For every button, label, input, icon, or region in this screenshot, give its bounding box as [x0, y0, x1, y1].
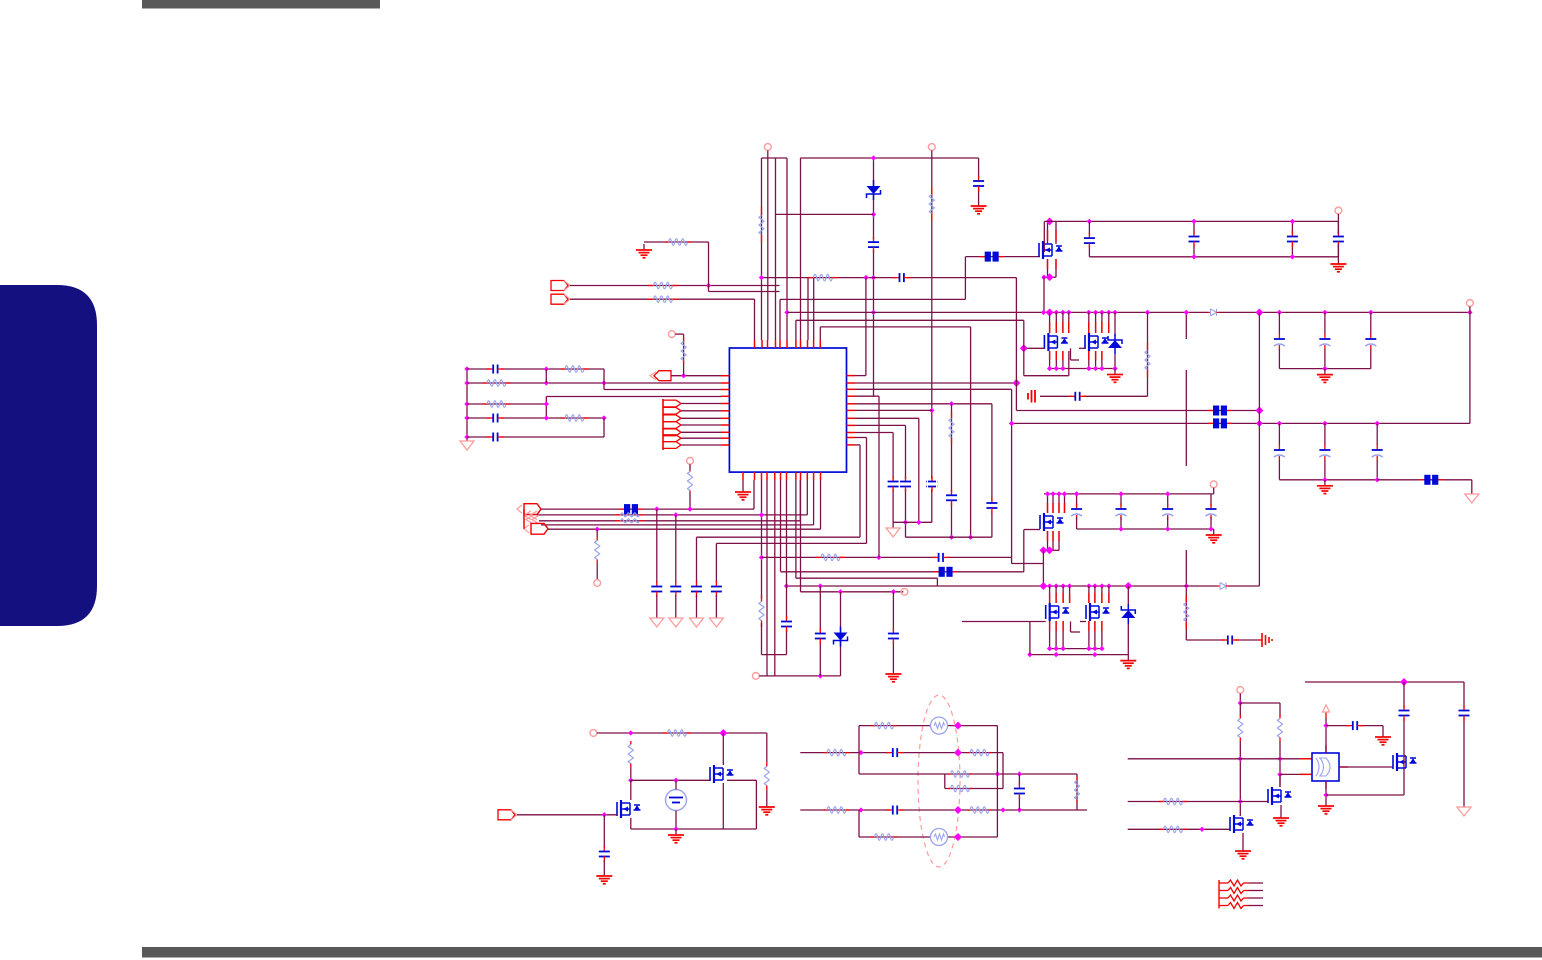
- junction net418: [544, 415, 549, 420]
- wire pin432 route: [855, 432, 893, 434]
- wire Z2 bot stub: [1127, 624, 1129, 655]
- ferrite bead FB3: [1208, 418, 1232, 428]
- wire QF src: [630, 818, 632, 829]
- capacitor C20: [945, 490, 958, 506]
- junction rail423 v1011: [1009, 421, 1014, 426]
- wire J9 net: [517, 814, 617, 816]
- wire rail 655: [1030, 654, 1128, 656]
- junction cbank2 r: [1375, 477, 1380, 482]
- wire pin375 route: [855, 375, 866, 377]
- pin stub red QCD top 1088.9: [1088, 593, 1090, 603]
- pin stub red QCD top 1094.9: [1094, 593, 1096, 603]
- ground G8: [636, 244, 652, 258]
- capacitor C3B-3: [1161, 504, 1174, 520]
- wire V683 res: [683, 334, 685, 376]
- wire V978 drop: [978, 158, 980, 200]
- resistor R17: [595, 537, 600, 563]
- resistor R7: [648, 296, 678, 303]
- pin left 418.3: [721, 417, 729, 419]
- terminal P9: [753, 673, 760, 680]
- pin left 396.3: [721, 395, 729, 397]
- wire br toprail: [1305, 681, 1464, 683]
- pin top 754.5: [754, 340, 756, 348]
- GPU controller IC U1 body: [729, 348, 846, 472]
- wire H396 leg: [1040, 395, 1148, 397]
- junction rail423 c2: [1322, 421, 1327, 426]
- pin top 820.3: [819, 340, 821, 348]
- junction J9 a: [602, 812, 607, 817]
- wire bl top: [597, 732, 767, 734]
- wire Z2 top stub: [1127, 586, 1129, 606]
- capacitor C5: [1083, 233, 1096, 249]
- junction srcrail 1062.9: [1060, 366, 1065, 371]
- wire V761 down2: [761, 623, 763, 655]
- pin stub red Q0 top 1056: [1055, 230, 1057, 241]
- pin top 767.5: [767, 340, 769, 348]
- pin left 445: [721, 444, 729, 446]
- pin stub red QAB top 1088.8: [1088, 322, 1090, 333]
- polarized capacitor CB2-3: [1371, 445, 1384, 461]
- junction cbank2 g: [1322, 477, 1327, 482]
- junction c3bank 1: [1074, 491, 1079, 496]
- capacitor C21: [899, 476, 912, 492]
- wire c3bank4 stub: [1210, 494, 1212, 506]
- capacitor C27: [1013, 783, 1026, 799]
- wire Q0 drain stub2: [1055, 221, 1057, 244]
- junction rail655 b: [1053, 652, 1058, 657]
- terminal P5: [1210, 481, 1217, 488]
- wire V1068 link: [1068, 351, 1070, 376]
- wire QB gate jog h: [1071, 359, 1080, 361]
- junction V1326-725: [1323, 723, 1328, 728]
- ground G5: [1317, 480, 1333, 494]
- wire c3bank4 bot: [1210, 517, 1212, 529]
- connector J4 arrow 4: [663, 422, 681, 429]
- polarized capacitor C10 red: [1028, 390, 1035, 403]
- wire drop a: [656, 509, 658, 583]
- pin stub red U2 in1: [1300, 758, 1311, 760]
- resistor R19: [816, 554, 846, 561]
- wire rail 586: [787, 585, 1260, 587]
- wire net437: [467, 436, 604, 438]
- wire H578: [796, 577, 938, 579]
- pin stub red QCD bot 1056.1: [1055, 621, 1057, 631]
- wire bead feed: [966, 256, 1040, 258]
- power arrow PA1: [1323, 705, 1330, 718]
- wire V756 down: [755, 780, 757, 829]
- junction C7 bot: [1290, 254, 1295, 259]
- wire V879: [878, 396, 880, 557]
- wire pin396 route: [855, 395, 879, 397]
- ground G1: [971, 200, 987, 214]
- chassis ground CG1: [1258, 633, 1272, 647]
- junction rail423 c1: [1277, 421, 1282, 426]
- pin right 383: [847, 382, 856, 384]
- junction Q3 top 1047.5: [1045, 491, 1050, 496]
- wire br h703: [1240, 702, 1280, 704]
- wire QF2 src: [1242, 833, 1244, 845]
- wire QC gate: [962, 621, 1046, 623]
- wire C8 gnd stub: [1337, 244, 1339, 258]
- pin stub red QAB bot 1049.6: [1049, 351, 1051, 360]
- pin stub red U2 out: [1339, 766, 1348, 768]
- resistor R24: [871, 722, 897, 729]
- junction c3bank 2: [1118, 491, 1123, 496]
- wire V774 down: [774, 480, 776, 676]
- wire net396: [546, 396, 721, 398]
- wire V1077: [1076, 774, 1078, 810]
- pin bottom 754.5: [754, 472, 756, 480]
- wire cbank1 bot 2: [1324, 349, 1326, 369]
- junction V761-row515: [759, 512, 764, 517]
- pin right 389.3: [847, 388, 856, 390]
- wire QB top stub 1: [1088, 312, 1090, 333]
- junction rail586 a4: [1060, 583, 1065, 588]
- resistor R15: [616, 513, 644, 517]
- junction C6 top: [1191, 219, 1196, 224]
- wire Q3 top stub 1064.5: [1064, 494, 1066, 513]
- wire P12 link: [675, 333, 683, 335]
- polarized capacitor CB1-2: [1318, 334, 1331, 350]
- capacitor C11: [1221, 635, 1239, 646]
- wire Q0 src stub1: [1047, 259, 1049, 277]
- terminal P2: [928, 144, 935, 151]
- wire G8 stub: [644, 241, 648, 243]
- pin stub red QAB top 1108.8: [1108, 322, 1110, 333]
- wire V944: [944, 774, 946, 789]
- junction rail312 right: [1467, 310, 1472, 315]
- wire pin444 route: [855, 444, 860, 446]
- wire net383: [467, 382, 721, 384]
- wire QF drain: [630, 780, 632, 800]
- capacitor C16: [814, 628, 827, 644]
- wire Q3 gate stub: [1024, 529, 1040, 531]
- junction V1011-423: [1009, 421, 1014, 426]
- junction V467 e: [464, 434, 469, 439]
- pin left 389.5: [721, 389, 729, 391]
- junction rail586 z: [1124, 582, 1132, 590]
- pin bottom 774.8: [774, 472, 776, 480]
- junction srcrail 1101.9: [1099, 366, 1104, 371]
- wire QB top stub 4: [1108, 312, 1110, 333]
- wire c3bank stub 1: [1076, 494, 1078, 506]
- wire V604 drop: [603, 815, 605, 848]
- pin stub red QAB top 1049.6: [1049, 322, 1051, 333]
- wire cap1089 chain: [1088, 221, 1090, 256]
- wire cbank1 rail: [1279, 368, 1370, 370]
- pin top 787: [786, 340, 788, 348]
- junction Q0 drain rail: [1046, 217, 1054, 225]
- wire GF2 stub: [892, 522, 894, 526]
- wire net404: [467, 403, 546, 405]
- resistor R3 on V931: [929, 187, 934, 221]
- wire V1023 q3: [1023, 530, 1025, 572]
- wire V1326 a: [1325, 718, 1327, 753]
- wire top manifold A: [762, 157, 788, 159]
- wire V546 a: [545, 369, 547, 383]
- junction V1240-801: [1238, 799, 1243, 804]
- mosfet QA: [1044, 333, 1068, 351]
- pin stub red QCD top 1101.9: [1101, 593, 1103, 603]
- wire pin425 route: [855, 424, 906, 426]
- junction rail312 QA3: [1054, 310, 1059, 315]
- capacitor C25: [886, 747, 904, 758]
- pin stub red QCD top 1063.1: [1062, 593, 1064, 603]
- highlight ellipse: [918, 695, 960, 867]
- junction rail277-V873: [871, 275, 876, 280]
- resistor R13: [681, 338, 686, 364]
- wire Q3 top stub 1053: [1052, 494, 1054, 513]
- wire QD gate: [1080, 621, 1086, 623]
- pin right 425.4: [847, 424, 856, 426]
- wire V860: [859, 445, 861, 537]
- wire V766 res: [766, 733, 768, 762]
- pin right 418.3: [847, 417, 856, 419]
- junction rail648 1094.9: [1092, 646, 1097, 651]
- wire QD bot stub 1088.9: [1088, 621, 1090, 649]
- ground flag GF2: [886, 526, 900, 537]
- wire QD bot stub 1094.9: [1094, 621, 1096, 649]
- wire V1186 seg3: [1185, 550, 1187, 640]
- capacitor C6: [1188, 231, 1201, 247]
- junction rail586 a2: [1047, 583, 1052, 588]
- junction Q0 source2: [1046, 273, 1054, 281]
- junction V1280-774: [1277, 772, 1282, 777]
- wire Q3 src stub 1059: [1058, 531, 1060, 550]
- wire V905: [905, 425, 907, 537]
- pin stub red Q3 bot 1047.5: [1047, 531, 1049, 541]
- wire H640: [1186, 639, 1258, 641]
- junction srcrail 1049.6: [1047, 366, 1052, 371]
- pin stub red QCD bot 1088.9: [1088, 621, 1090, 631]
- pin stub red Q3 top 1047.5: [1047, 503, 1049, 513]
- wire net369: [467, 368, 604, 370]
- wire QB bot stub 2: [1095, 351, 1097, 369]
- junction row810 b: [954, 806, 962, 814]
- wire drop d: [715, 543, 717, 583]
- junction J3 tee: [681, 373, 686, 378]
- capacitor C8: [1332, 231, 1345, 247]
- capacitor Cd-a: [650, 581, 663, 597]
- junction c3rail a: [1118, 526, 1123, 531]
- wire V1280 res: [1279, 703, 1281, 716]
- terminal P7: [594, 580, 601, 587]
- wire C8 column: [1337, 221, 1339, 256]
- junction V1240-759: [1238, 756, 1243, 761]
- wire V753 from conn: [754, 299, 756, 340]
- pin stub red U2 in2: [1300, 773, 1311, 775]
- wire rail 221: [1044, 220, 1338, 222]
- junction br a: [1400, 678, 1408, 686]
- wire QD top stub 1108.9: [1108, 586, 1110, 603]
- wire V786 up: [786, 480, 788, 586]
- mosfet QC: [1046, 603, 1070, 621]
- junction row837: [954, 833, 962, 841]
- capacitor C3B-2: [1115, 504, 1128, 520]
- ground G13: [596, 870, 612, 884]
- wire J1 net: [570, 285, 780, 287]
- junction pin403-V951: [949, 401, 954, 406]
- wire V931 chain: [931, 150, 933, 522]
- pin bottom 800.5: [800, 472, 802, 480]
- wire QC top stub 1049.6: [1049, 586, 1051, 603]
- junction rail312 c3: [1368, 310, 1373, 315]
- wire V1023 gate link: [1023, 320, 1025, 375]
- junction row810 d: [1017, 807, 1022, 812]
- wire V1240 b: [1239, 741, 1241, 816]
- junction rail312 QB2: [1093, 310, 1098, 315]
- wire P9 stub: [759, 675, 768, 677]
- pin stub red QAB top 1062.9: [1062, 322, 1064, 333]
- ground G12: [668, 829, 684, 843]
- wire rail 257: [1089, 256, 1338, 258]
- wire QE drain: [722, 733, 724, 765]
- capacitor C19: [985, 498, 998, 514]
- wire Q3 top stub 1047.5: [1047, 494, 1049, 513]
- power flag PF2: [1457, 805, 1471, 816]
- wire V859 b: [858, 810, 860, 837]
- wire H214: [776, 213, 874, 215]
- junction V1280-759: [1277, 756, 1282, 761]
- wire QG gate: [1339, 766, 1393, 768]
- capacitor C13: [486, 413, 504, 424]
- diode D2 small: [1217, 582, 1229, 591]
- resistor R18: [759, 595, 764, 627]
- wire V859 a: [858, 726, 860, 774]
- wire QD top stub 1101.9: [1101, 586, 1103, 603]
- junction rail648 1056.1: [1053, 646, 1058, 651]
- wire V865 up: [865, 278, 867, 376]
- wire row752: [800, 752, 1003, 754]
- pin stub red Q3 bot 1059: [1058, 531, 1060, 541]
- wire c3bank bot 3: [1167, 517, 1169, 529]
- resistor R23: [764, 762, 769, 790]
- wire H563 jog: [1012, 563, 1044, 565]
- wire V1259 long: [1258, 312, 1260, 586]
- junction V1186-rail586: [1184, 583, 1189, 588]
- junction rail586 b4: [1106, 583, 1111, 588]
- junction row810 a: [858, 807, 863, 812]
- mosfet Q0: [1039, 241, 1063, 259]
- wire V918: [918, 418, 920, 522]
- wire R8 link: [648, 241, 709, 243]
- junction rail522 a: [916, 520, 921, 525]
- terminal P12: [668, 331, 675, 338]
- wire H759 long: [1128, 758, 1312, 760]
- junction bl c: [628, 778, 633, 783]
- wire H299 link: [780, 298, 965, 300]
- thermistor TH2: [931, 829, 948, 846]
- capacitor C1: [867, 237, 880, 253]
- wire V1280 b: [1279, 741, 1281, 787]
- wire rail 312: [787, 311, 1470, 313]
- wire QD bot stub 1101.9: [1101, 621, 1103, 649]
- resistor R22: [628, 741, 633, 767]
- junction rail312 c2: [1322, 310, 1327, 315]
- connector J7 chevron: [526, 515, 539, 524]
- wire QE2 link: [1403, 753, 1405, 767]
- wire V1029 link: [1029, 622, 1031, 655]
- blue side tab: [0, 285, 97, 626]
- terminal P6: [687, 457, 694, 464]
- connector J5-8 spine: [523, 509, 525, 529]
- wire cbank2 bot 1: [1278, 460, 1280, 480]
- power flag PF1: [1465, 492, 1479, 503]
- wire QC bot stub 1049.6: [1049, 621, 1051, 649]
- junction row774 b: [1017, 771, 1022, 776]
- junction bl e: [673, 826, 678, 831]
- junction V1186 top: [1184, 310, 1189, 315]
- resistor R28: [948, 785, 972, 792]
- wire cbank1 stub 3: [1370, 312, 1372, 334]
- resistor R27: [948, 771, 972, 778]
- wire V820 mid: [819, 586, 821, 676]
- ground G2: [1330, 258, 1346, 272]
- wire pin410 route: [855, 409, 932, 411]
- junction row509 b: [687, 506, 692, 511]
- mosfet QE2: [1268, 787, 1292, 805]
- wire rail 410: [1016, 410, 1259, 412]
- junction rail648 1063.1: [1060, 646, 1065, 651]
- resistor R21: [663, 730, 691, 737]
- pin stub red Q3 bot 1053: [1052, 531, 1054, 541]
- wire V1186 seg1: [1185, 312, 1187, 339]
- wire H536: [697, 536, 861, 538]
- junction rail557 a: [876, 555, 881, 560]
- resistor R4: [1145, 343, 1150, 377]
- pin top 795.9: [795, 340, 797, 348]
- connector J3: [650, 371, 671, 381]
- pin right 375.6: [847, 375, 856, 377]
- wire V1404 b: [1403, 767, 1405, 795]
- wire row523: [541, 524, 814, 526]
- wire C7 column: [1291, 221, 1293, 256]
- resistor pack RP1: [1219, 880, 1263, 886]
- wire row725: [859, 725, 997, 727]
- polarized capacitor CB2-1: [1273, 445, 1286, 461]
- connector J4 arrow 3: [663, 415, 681, 422]
- polarized capacitor CB1-3: [1364, 334, 1377, 350]
- wire QD top stub 1088.9: [1088, 586, 1090, 603]
- wire QA bot stub 1: [1049, 351, 1051, 369]
- ferrite bead FB6: [934, 567, 958, 577]
- pin stub red QCD bot 1063.1: [1062, 621, 1064, 631]
- junction rail312 QB4: [1106, 310, 1111, 315]
- connector J2: [551, 294, 570, 304]
- pin stub red QCD top 1108.9: [1108, 593, 1110, 603]
- wire V1469: [1469, 306, 1471, 423]
- wire V991: [991, 404, 993, 537]
- resistor R2 rail277: [808, 274, 838, 281]
- wire P5 stub: [1213, 488, 1215, 494]
- resistor R12: [561, 415, 589, 422]
- pin top 800.5: [800, 340, 802, 348]
- resistor R20: [949, 412, 954, 444]
- wire bl bottom: [631, 828, 757, 830]
- pin left 410.8: [721, 410, 729, 412]
- wire Q0 source link: [1044, 276, 1056, 278]
- ground G9: [735, 486, 751, 500]
- wire V1019: [1018, 774, 1020, 810]
- pin right 432.5: [847, 432, 856, 434]
- wire V813b rise: [813, 480, 815, 525]
- wire row837: [859, 836, 997, 838]
- wire H375 link: [1024, 375, 1069, 377]
- junction rail648 1088.9: [1086, 646, 1091, 651]
- pin bottom 780.5: [780, 472, 782, 480]
- xor gate U2: [1312, 753, 1339, 781]
- junction net383: [544, 380, 549, 385]
